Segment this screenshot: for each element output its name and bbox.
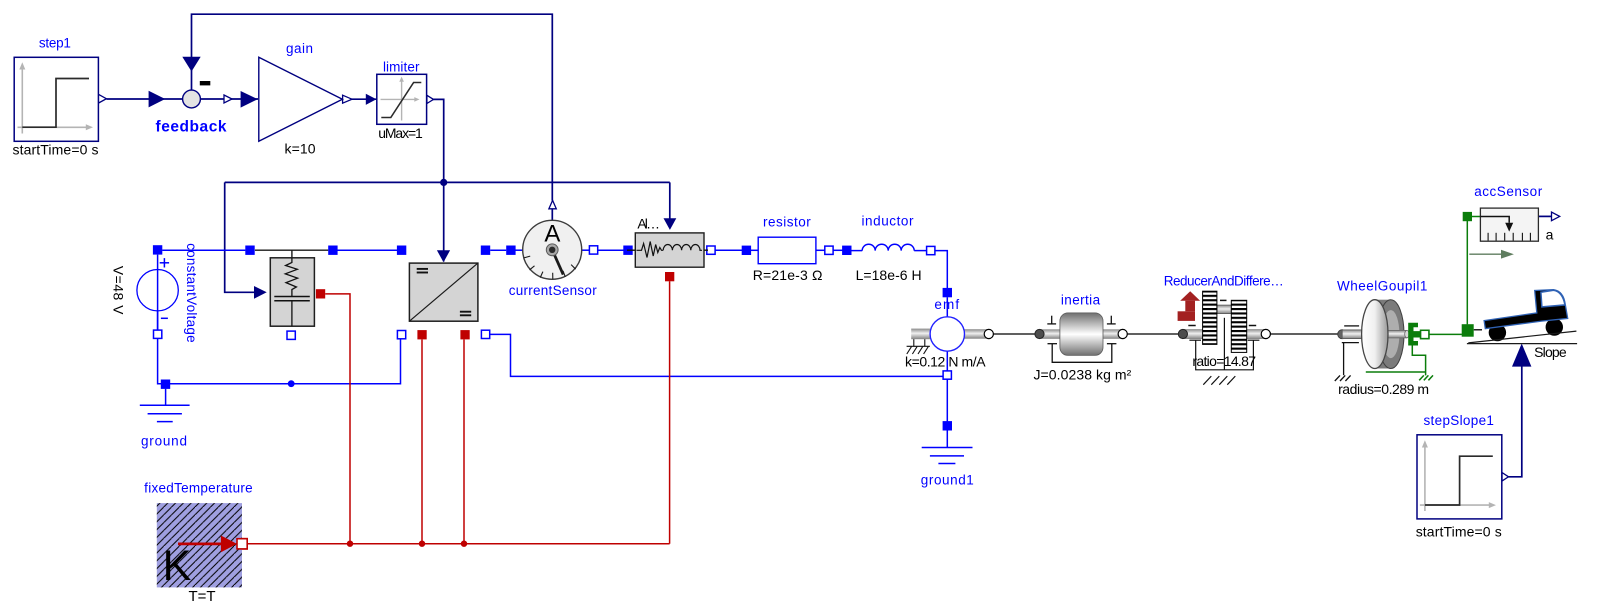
svg-text:Slope: Slope: [1534, 344, 1567, 360]
svg-text:L=18e-6 H: L=18e-6 H: [856, 267, 922, 283]
svg-text:uMax=1: uMax=1: [378, 125, 423, 141]
svg-text:V=48 V: V=48 V: [110, 266, 126, 315]
svg-text:inertia: inertia: [1061, 293, 1101, 308]
svg-text:ground1: ground1: [921, 473, 974, 488]
svg-text:J=0.0238 kg m²: J=0.0238 kg m²: [1033, 367, 1131, 383]
svg-text:fixedTemperature: fixedTemperature: [144, 480, 253, 495]
svg-text:WheelGoupil1: WheelGoupil1: [1337, 279, 1428, 294]
svg-text:A: A: [544, 221, 560, 248]
svg-text:radius=0.289 m: radius=0.289 m: [1338, 381, 1429, 397]
svg-text:limiter: limiter: [383, 60, 420, 75]
svg-text:k=10: k=10: [285, 141, 316, 157]
svg-text:feedback: feedback: [156, 119, 227, 136]
svg-text:resistor: resistor: [763, 214, 811, 229]
svg-text:K: K: [163, 542, 192, 590]
svg-text:T=T: T=T: [188, 588, 215, 605]
svg-text:R=21e-3 Ω: R=21e-3 Ω: [753, 267, 823, 283]
svg-text:constantVoltage: constantVoltage: [184, 243, 199, 343]
svg-text:ReducerAndDiffere…: ReducerAndDiffere…: [1164, 274, 1284, 289]
svg-text:emf: emf: [934, 297, 959, 312]
svg-text:ground: ground: [141, 434, 187, 449]
svg-text:currentSensor: currentSensor: [509, 283, 598, 298]
svg-text:k=0.12 N m/A: k=0.12 N m/A: [905, 353, 986, 369]
svg-text:accSensor: accSensor: [1474, 184, 1543, 199]
svg-text:startTime=0 s: startTime=0 s: [13, 141, 99, 157]
svg-text:a: a: [1546, 227, 1554, 243]
svg-text:ratio=14.87: ratio=14.87: [1192, 353, 1256, 369]
svg-text:inductor: inductor: [862, 214, 915, 229]
svg-text:gain: gain: [286, 41, 313, 56]
svg-text:stepSlope1: stepSlope1: [1423, 413, 1494, 428]
svg-text:Al…: Al…: [637, 215, 660, 231]
svg-text:startTime=0 s: startTime=0 s: [1416, 524, 1502, 540]
svg-text:step1: step1: [39, 35, 71, 50]
